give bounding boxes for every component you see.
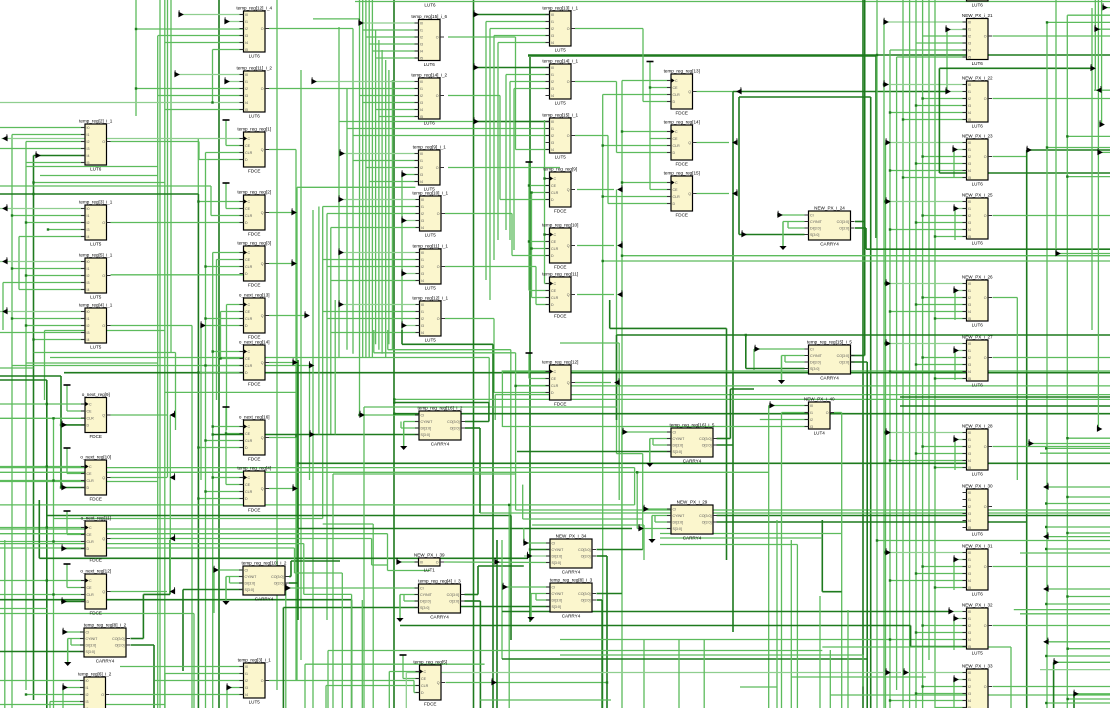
junction [934,466,936,468]
svg-text:I5: I5 [245,48,248,52]
power [223,182,230,184]
svg-text:C: C [248,425,251,429]
wire [38,500,40,558]
svg-text:FDCE: FDCE [554,265,567,270]
arrow [1029,439,1033,445]
svg-text:D: D [245,324,248,328]
arrow [953,145,957,151]
junction [32,181,34,183]
wire [214,569,243,571]
svg-text:O[3:0]: O[3:0] [274,582,284,586]
svg-text:I4: I4 [421,279,424,283]
wire [448,95,500,97]
wire [740,686,777,688]
wire [916,163,967,165]
junction [621,181,623,183]
wire [220,312,222,359]
svg-text:CE: CE [551,289,557,293]
svg-text:o_next_reg[11]: o_next_reg[11] [81,516,111,521]
svg-text:temp_reg_reg[16]_i_2: temp_reg_reg[16]_i_2 [418,406,463,411]
wire [366,36,419,38]
wire [636,472,638,528]
svg-text:temp_reg[2]_i_1: temp_reg[2]_i_1 [79,119,113,124]
power [400,654,407,656]
wire [1067,596,1110,598]
power [223,406,230,408]
wire [1044,641,1110,643]
junction [393,401,395,403]
carry chain NEW_PX_i_34 (CARRY4) [546,534,596,575]
svg-text:FDCE: FDCE [89,497,102,502]
svg-text:C: C [675,79,678,83]
wire [509,82,511,241]
junction [606,681,608,683]
arrow [340,149,344,155]
svg-text:I0: I0 [420,561,423,565]
wire [650,87,671,89]
svg-text:CO[3:0]: CO[3:0] [837,354,849,358]
svg-text:I4: I4 [968,699,971,703]
svg-text:NEW_PX_i_25: NEW_PX_i_25 [962,193,993,198]
wire [754,348,805,350]
svg-text:DI[3:0]: DI[3:0] [673,444,684,448]
arrow [309,361,313,367]
svg-text:O[3:0]: O[3:0] [449,600,459,604]
svg-text:O[3:0]: O[3:0] [702,521,712,525]
wire [401,330,403,344]
junction [1066,496,1068,498]
wire [3,282,85,284]
svg-text:CLR: CLR [245,265,253,269]
wire [226,305,228,431]
junction [1046,146,1048,148]
wire [0,471,769,473]
wire [617,453,643,455]
wire [866,362,868,708]
wire [304,664,306,708]
arrow [618,241,622,247]
wire [796,545,798,708]
carry chain temp_reg_reg[16]_i_5 (CARRY4) [667,423,717,464]
wire [495,394,1110,396]
wire [323,206,420,208]
wire [577,189,614,191]
arrow [954,346,958,352]
wire [375,30,377,344]
wire [993,446,1110,448]
wire [111,141,200,143]
wire [66,564,68,588]
wire [934,0,936,708]
svg-text:I4: I4 [968,638,971,642]
svg-text:S[3:0]: S[3:0] [810,233,819,237]
svg-text:temp_reg[9]_i_1: temp_reg[9]_i_1 [413,145,447,150]
svg-text:I2: I2 [968,214,971,218]
svg-text:CLR: CLR [245,151,253,155]
wire [212,253,214,708]
junction [902,118,904,120]
svg-text:I1: I1 [245,80,248,84]
arrow [733,138,737,144]
svg-text:LUT6: LUT6 [972,592,984,597]
wire [1067,135,1110,137]
svg-text:LUT5: LUT5 [555,155,567,160]
wire [176,74,244,76]
wire [532,297,550,299]
wire [414,692,420,694]
wire [327,266,420,268]
wire [67,534,85,536]
svg-text:temp_reg[5]_i_1: temp_reg[5]_i_1 [79,253,113,258]
wire [660,533,841,535]
wire [269,680,414,682]
wire [49,702,51,708]
svg-text:I1: I1 [551,73,554,77]
svg-text:I1: I1 [810,411,813,415]
wire [226,208,244,210]
wire [488,403,490,422]
power [647,61,654,63]
power [223,119,230,121]
svg-text:temp_reg_reg[8]_i_2: temp_reg_reg[8]_i_2 [84,623,127,628]
wire [488,358,490,403]
arrow [954,435,958,441]
svg-text:LUT5: LUT5 [425,338,437,343]
flip-flop temp_reg_reg[2] (FDCE) [237,190,271,237]
arrow [1027,146,1031,152]
junction [32,338,34,340]
arrow [293,484,297,490]
wire [388,672,390,708]
junction [915,692,917,694]
wire [164,674,166,708]
svg-text:temp_reg[3]_i_1: temp_reg[3]_i_1 [238,658,272,663]
arrow [3,257,7,263]
arrow [63,628,67,634]
wire [545,178,550,180]
wire [400,625,911,627]
arrow [62,483,66,489]
svg-text:CARRY4: CARRY4 [430,615,449,620]
wire [560,654,863,656]
svg-text:I3: I3 [968,221,971,225]
wire [916,453,967,455]
svg-text:I1: I1 [245,20,248,24]
wire [45,330,165,332]
wire [326,214,328,621]
arrow [1097,425,1101,431]
wire [331,227,420,229]
wire [341,573,343,708]
svg-text:CE: CE [551,377,557,381]
svg-text:CO[3:0]: CO[3:0] [699,437,711,441]
wire [360,22,419,24]
wire [53,418,55,708]
wire [327,318,420,320]
arrow [63,683,67,689]
wire [446,682,493,684]
wire [387,534,389,571]
svg-text:CE: CE [673,188,679,192]
svg-text:I3: I3 [245,686,248,690]
svg-text:I5: I5 [968,56,971,60]
junction [1066,698,1068,700]
wire [883,22,885,708]
svg-text:O: O [984,565,987,569]
svg-text:DI[3:0]: DI[3:0] [86,644,97,648]
wire [12,318,85,320]
ground [396,595,403,623]
wire [601,600,603,708]
arrow [618,290,622,296]
wire [1046,702,1110,704]
wire [479,428,481,513]
wire [269,149,296,151]
wire [400,422,402,429]
LUT temp_reg[14]_i_2 (LUT6) [411,73,447,126]
svg-text:temp_reg[11]_i_2: temp_reg[11]_i_2 [237,66,273,71]
wire [515,474,517,510]
svg-text:C: C [248,137,251,141]
arrow [778,211,782,217]
wire [0,547,295,549]
wire [322,207,324,519]
wire [726,328,728,560]
wire [603,196,671,198]
wire [0,613,194,615]
wire [660,544,797,546]
wire [577,245,614,247]
wire [486,21,550,23]
junction [46,579,48,581]
wire [517,451,671,453]
wire [753,349,755,370]
junction [915,104,917,106]
wire [403,595,405,602]
junction [884,200,886,202]
wire [165,42,244,44]
flip-flop o_next_reg[14] (FDCE) [239,340,270,387]
wire [0,102,244,104]
wire [529,57,531,622]
wire [34,339,86,341]
svg-text:CARRY4: CARRY4 [683,459,702,464]
svg-text:D: D [673,151,676,155]
wire [0,127,85,129]
svg-text:D: D [245,371,248,375]
svg-text:I2: I2 [87,324,90,328]
wire [153,645,155,708]
wire [381,50,383,354]
wire [560,639,890,641]
wire [732,92,734,633]
svg-text:I0: I0 [87,126,90,130]
wire [916,42,967,44]
svg-text:CLR: CLR [673,144,681,148]
wire [536,599,550,601]
svg-text:I0: I0 [87,207,90,211]
svg-text:CLR: CLR [673,195,681,199]
wire [922,0,924,708]
wire [597,549,643,551]
wire [226,145,244,147]
wire [528,55,876,57]
wire [230,582,244,584]
LUT temp_reg[13]_i_1 (LUT5) [542,6,578,53]
junction [52,417,54,419]
svg-text:O: O [984,296,987,300]
wire [366,167,419,169]
svg-text:CLR: CLR [551,296,559,300]
svg-text:LUT6: LUT6 [972,3,984,8]
wire [111,538,372,540]
wire [545,283,550,285]
flip-flop o_next_reg[16] (FDCE) [239,415,270,462]
wire [213,426,244,428]
svg-text:CLR: CLR [551,247,559,251]
svg-text:I1: I1 [245,672,248,676]
wire [0,504,635,506]
svg-text:S[3:0]: S[3:0] [552,605,561,609]
wire [1016,298,1018,481]
junction [211,101,213,103]
wire [170,0,172,353]
wire [783,221,805,223]
svg-text:FDCE: FDCE [554,314,567,319]
wire [528,54,1110,56]
wire [1046,503,1110,505]
svg-text:I2: I2 [87,140,90,144]
wire [890,700,967,702]
junction [1066,135,1068,137]
svg-text:LUT6: LUT6 [249,54,261,59]
wire [0,185,211,187]
LUT NEW_PX_i_21 (LUT6) [962,13,993,66]
flip-flop temp_reg_reg[4] (FDCE) [237,466,271,513]
junction [921,296,923,298]
arrow [886,197,890,203]
svg-text:I3: I3 [968,572,971,576]
svg-text:LUT5: LUT5 [972,651,984,656]
LUT temp_reg[3]_i_1 (LUT5) [79,200,113,247]
svg-text:temp_reg_reg[1]: temp_reg_reg[1] [237,127,271,132]
junction [915,162,917,164]
svg-text:I5: I5 [420,57,423,61]
wire [847,610,849,708]
wire [1067,176,1110,178]
junction [514,385,516,387]
junction [204,364,206,366]
wire [155,680,244,682]
svg-text:S[3:0]: S[3:0] [673,527,682,531]
svg-text:I3: I3 [968,512,971,516]
svg-text:I4: I4 [968,310,971,314]
junction [135,28,137,30]
wire [606,556,608,708]
wire [295,572,343,574]
svg-text:S[3:0]: S[3:0] [421,433,430,437]
wire [402,655,404,679]
svg-text:I0: I0 [968,671,971,675]
arrow [171,534,175,540]
wire [515,37,517,150]
wire [353,135,550,137]
wire [890,49,967,51]
junction [884,342,886,344]
junction [1066,648,1068,650]
wire [206,365,244,367]
svg-text:o_next_reg[9]: o_next_reg[9] [82,392,110,397]
wire [1055,0,1057,254]
wire [703,640,705,708]
wire [206,152,244,154]
wire [1027,149,1110,151]
wire [136,28,244,30]
wire [388,70,390,344]
wire [1068,648,1110,650]
svg-text:CLR: CLR [87,479,95,483]
svg-text:O: O [984,155,987,159]
wire [198,142,200,160]
svg-text:NEW_PX_i_23: NEW_PX_i_23 [962,134,993,139]
wire [745,335,747,369]
svg-text:I1: I1 [968,678,971,682]
svg-text:O[3:0]: O[3:0] [839,227,849,231]
svg-text:LUT1: LUT1 [424,568,436,573]
wire [954,440,956,471]
svg-text:I3: I3 [245,94,248,98]
wire [226,688,228,708]
junction [921,97,923,99]
svg-text:I4: I4 [420,50,423,54]
wire [493,36,495,261]
junction [52,479,54,481]
arrow [737,87,741,93]
svg-text:CLR: CLR [421,684,429,688]
wire [1026,150,1028,708]
wire [886,343,967,345]
wire [923,446,967,448]
wire [0,311,85,313]
wire [522,485,524,519]
wire [768,406,770,708]
wire [448,36,516,38]
arrow [618,185,622,191]
wire [26,694,84,696]
svg-text:I1: I1 [968,207,971,211]
wire [339,199,420,201]
wire [529,185,550,187]
svg-text:CLR: CLR [245,490,253,494]
svg-text:CLR: CLR [245,214,253,218]
wire [327,213,420,215]
wire [524,555,550,557]
wire [602,95,604,708]
arrow [171,473,175,479]
svg-text:I3: I3 [968,452,971,456]
svg-text:CE: CE [421,677,427,681]
junction [46,526,48,528]
wire [313,18,360,20]
arrow [310,430,314,436]
wire [1091,8,1093,330]
wire [784,356,786,363]
arrow [359,19,363,25]
svg-text:I3: I3 [421,219,424,223]
wire [890,229,967,231]
wire [791,676,926,678]
junction [883,83,885,85]
